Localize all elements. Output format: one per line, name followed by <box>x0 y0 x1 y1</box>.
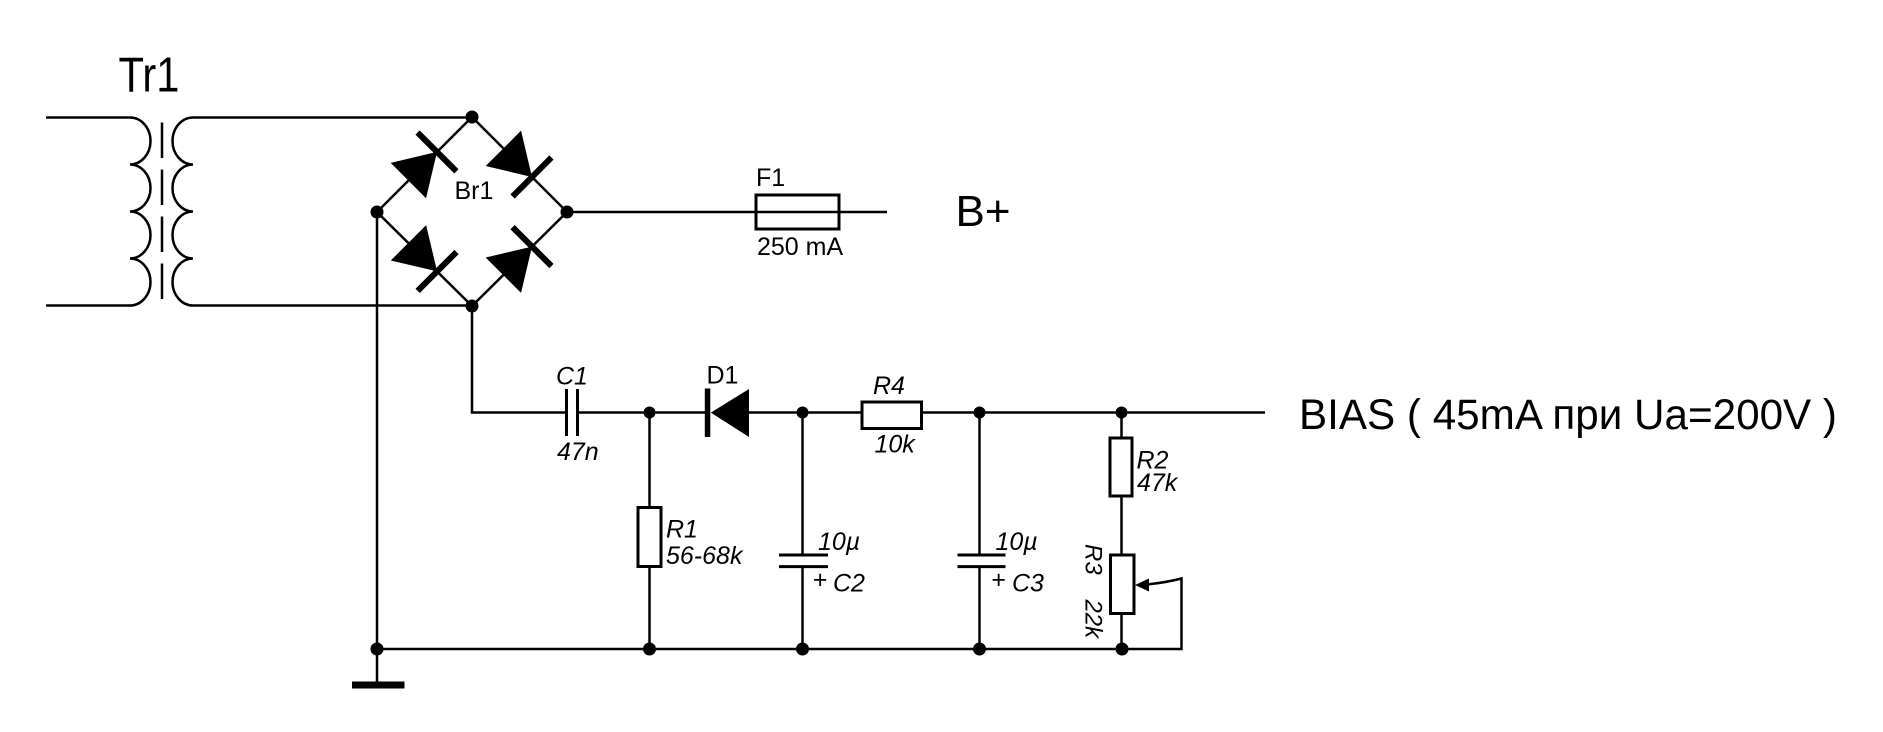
wire: bridge left node down to ground rail <box>376 212 379 649</box>
svg-text:C1: C1 <box>556 363 588 391</box>
node dot bridge left <box>371 206 384 219</box>
svg-text:10µ: 10µ <box>818 528 860 556</box>
wire: C2 bottom plate down to ground rail <box>801 568 804 649</box>
resistor R1 body <box>638 508 661 567</box>
ground bar <box>352 682 405 689</box>
svg-text:R4: R4 <box>873 372 905 400</box>
transformer Tr1 core (dashed) <box>161 123 164 300</box>
wire: node C down to C3 top plate <box>978 413 981 555</box>
node D dot (R2 junction) <box>1116 407 1128 419</box>
diode Br1 top-right <box>484 129 554 199</box>
svg-text:D1: D1 <box>707 362 739 390</box>
capacitor C1 left plate <box>565 389 568 436</box>
wire: node B down to C2 top plate <box>801 413 804 555</box>
svg-text:C2: C2 <box>833 570 865 598</box>
capacitor C2 bottom plate <box>779 565 828 568</box>
node dot bridge bottom <box>466 300 479 313</box>
capacitor C3 bottom plate <box>958 565 1006 568</box>
svg-text:C3: C3 <box>1012 570 1044 598</box>
svg-text:47k: 47k <box>1137 469 1179 497</box>
wire: C1 right plate to node A <box>579 411 705 414</box>
svg-text:56-68k: 56-68k <box>666 542 744 570</box>
wire: D1 to node B and on through R4 region <box>749 411 862 414</box>
wire: R4 right to BIAS stub end <box>922 411 1266 414</box>
diode Br1 bottom-right <box>484 225 554 295</box>
node dot ground rail below C2 <box>796 643 809 656</box>
diode D1 cathode bar <box>705 389 711 438</box>
svg-text:10µ: 10µ <box>996 528 1038 556</box>
node dot ground rail below R3 <box>1116 643 1129 656</box>
diode Br1 top-left <box>389 130 459 200</box>
svg-text:250 mA: 250 mA <box>757 233 843 261</box>
svg-text:BIAS ( 45mA при Ua=200V ): BIAS ( 45mA при Ua=200V ) <box>1299 391 1837 439</box>
svg-text:Br1: Br1 <box>455 177 494 205</box>
resistor R2 body <box>1110 438 1132 496</box>
svg-text:B+: B+ <box>956 187 1011 236</box>
node dot bridge top <box>466 111 479 124</box>
node dot ground rail below R1 <box>643 643 656 656</box>
wire: C3 bottom plate down to ground rail <box>978 568 981 649</box>
svg-text:R1: R1 <box>666 516 698 544</box>
resistor R4 body <box>862 402 922 429</box>
svg-text:R3: R3 <box>1080 544 1107 575</box>
wire: R3 wiper return to ground rail <box>1122 579 1182 650</box>
diode Br1 bottom-left <box>389 223 459 293</box>
fuse F1 body <box>756 195 839 229</box>
wire: node D down through R2 to R3 <box>1120 413 1123 556</box>
node B dot (D1/C2 junction) <box>797 407 809 419</box>
node C dot (R4/C3 junction) <box>974 407 986 419</box>
node A dot (C1/D1 junction) <box>644 407 656 419</box>
node dot ground rail at ground symbol <box>371 643 384 656</box>
svg-text:F1: F1 <box>756 164 785 192</box>
capacitor C3 top plate <box>958 554 1006 557</box>
svg-text:+: + <box>813 566 828 594</box>
node dot bridge right <box>561 206 574 219</box>
wire: R3 bottom to ground rail <box>1120 613 1123 649</box>
node dot ground rail below C3 <box>973 643 986 656</box>
potentiometer R3 body <box>1111 555 1135 614</box>
ground stem <box>376 649 379 682</box>
wire: ground rail <box>377 648 1122 651</box>
svg-text:47n: 47n <box>557 438 599 466</box>
capacitor C2 top plate <box>779 554 828 557</box>
potentiometer R3 wiper arrow <box>1135 579 1149 592</box>
svg-text:10k: 10k <box>875 431 917 459</box>
svg-text:+: + <box>991 566 1006 594</box>
transformer Tr1 secondary winding (right) with leads to bridge <box>172 118 472 306</box>
svg-text:22k: 22k <box>1080 598 1107 640</box>
transformer Tr1 primary winding (left) with leads <box>46 118 151 306</box>
svg-text:Tr1: Tr1 <box>119 49 180 103</box>
wire: bridge bottom node down and right to C1 <box>472 306 565 413</box>
bridge Br1 diamond arms <box>377 117 567 306</box>
diode D1 triangle <box>711 389 749 437</box>
wire: node A down through R1 to ground rail <box>648 413 651 650</box>
wire: bridge right node to B+ through fuse <box>567 211 887 214</box>
capacitor C1 right plate <box>576 389 579 436</box>
